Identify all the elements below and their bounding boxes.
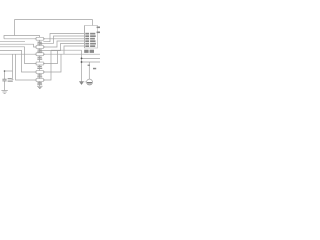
junction dot left cap: [4, 70, 6, 72]
wire C1 top lead: [4, 71, 6, 79]
microphone MK1: [85, 79, 93, 85]
resistor R1: [36, 37, 43, 40]
wire tap1 to pin row 1: [43, 34, 84, 42]
wire left bus line jog to R2: [0, 44, 36, 47]
text connector pin row 2: [85, 35, 89, 37]
wire top rail right drop to connector: [92, 20, 94, 26]
resistor R5: [36, 71, 43, 74]
wire top rail left drop: [14, 20, 16, 36]
text R1 value: [38, 42, 42, 43]
text connector pin row 6: [85, 45, 89, 47]
wire riser to pin row 6: [64, 46, 84, 54]
text mic pin: [88, 65, 90, 66]
text right edge label 1: [97, 27, 100, 29]
wire stub tick: [12, 78, 14, 80]
wire row A: [82, 57, 101, 59]
wire top rail: [15, 19, 93, 21]
wire chain R5-R6: [39, 73, 41, 78]
text right edge label 2: [97, 32, 100, 34]
wire row B: [82, 61, 101, 63]
junction dot bus A: [81, 58, 83, 60]
wire drop to R6: [16, 54, 37, 80]
text C1 value: [8, 81, 13, 82]
text R3 value: [38, 57, 42, 58]
resistor R3: [36, 53, 43, 56]
text mic label: [93, 68, 96, 70]
wire bus drop: [81, 50, 83, 81]
text R6 value: [38, 82, 42, 83]
wire stub descender: [12, 71, 14, 79]
connector U2 body: [85, 26, 98, 49]
capacitor C1 plates: [2, 79, 6, 81]
wire mic drop: [88, 62, 90, 79]
wire R3 rail H2: [43, 53, 100, 55]
wire R6 to ground: [39, 81, 41, 86]
wire R4 riser join H1: [43, 50, 57, 63]
wire rail left jog down: [4, 36, 15, 39]
wire stub left line: [0, 41, 25, 43]
wire chain R3-R4: [39, 56, 41, 62]
resistor R4: [36, 62, 43, 65]
text C1 ref: [8, 78, 12, 79]
wire left bus line to R5: [0, 50, 36, 72]
text connector pin row 3: [85, 38, 89, 40]
text connector pin row 4: [85, 40, 89, 42]
text connector pin row 5: [85, 43, 89, 45]
wire C1 bottom lead: [4, 81, 6, 91]
resistor R2: [36, 46, 43, 49]
ground center (R6): [37, 86, 42, 88]
wire left bus line to R4: [0, 47, 36, 64]
wire tap2 to pin row 2: [40, 36, 85, 43]
wire R5 riser join H2: [43, 54, 61, 72]
resistor R6: [36, 79, 43, 82]
text R4 value: [38, 66, 42, 67]
wire C1 feed drop: [5, 54, 13, 71]
wire bottom rail H1: [51, 49, 82, 51]
ground arrow right: [79, 82, 84, 85]
text below rail C labels: [84, 50, 88, 53]
text R5 value: [38, 74, 42, 75]
wire tap3 to pin row 5: [40, 44, 85, 51]
ground left (C1): [1, 91, 7, 94]
wire left bus line to R1: [4, 38, 36, 40]
pin ticks: [35, 38, 44, 81]
wire chain R1-R2: [39, 40, 41, 45]
junction dot bus B: [81, 61, 83, 63]
wire R1 right to pin row 3: [43, 38, 84, 40]
text R2 value: [38, 49, 42, 50]
wire R6 riser join H1: [43, 50, 51, 80]
wire left bus line to R3: [0, 53, 36, 55]
wire chain R2-R3: [39, 48, 41, 52]
text connector pin row 1: [85, 33, 89, 35]
wire R2 right to pin row 4: [43, 41, 84, 47]
connector U2 left edge: [84, 26, 86, 49]
wire chain R4-R5: [39, 65, 41, 71]
wire rail to R1 top jog: [15, 36, 40, 38]
